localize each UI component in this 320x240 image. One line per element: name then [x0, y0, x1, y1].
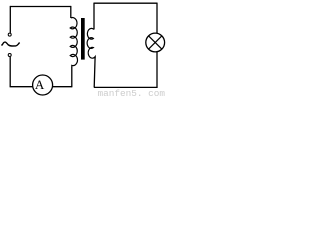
lamp X diagonal 1 [149, 36, 162, 49]
lamp X diagonal 2 [149, 36, 162, 49]
ammeter A1 circle [33, 75, 53, 95]
svg-text:A: A [35, 77, 45, 92]
transformer secondary coil L2 (3 loops) [87, 28, 95, 58]
wire: secondary loop left lower (below coil) [93, 57, 96, 87]
transformer iron core [81, 18, 85, 60]
wire: secondary loop right upper [156, 3, 158, 34]
AC tilde symbol [1, 42, 19, 46]
wire: primary loop bottom [10, 86, 72, 88]
wire: primary loop left lower [9, 57, 11, 87]
wire: secondary loop right lower [156, 52, 158, 89]
wire: secondary loop left upper [93, 3, 95, 30]
wire: secondary loop bottom [94, 86, 157, 88]
transformer primary coil L1 (5 loops) [70, 18, 77, 68]
wire: primary loop left upper [9, 6, 11, 33]
wire: secondary loop top [94, 2, 157, 4]
lamp circle [146, 33, 165, 52]
wire: primary loop right lower (below coil) [71, 67, 73, 87]
wire: primary coil feed (top) [70, 6, 72, 18]
svg-text:manfen5. com: manfen5. com [98, 88, 166, 98]
terminal circle upper (AC source) [8, 33, 11, 36]
terminal circle lower (AC source) [8, 54, 11, 57]
wire: primary loop top [10, 6, 71, 8]
